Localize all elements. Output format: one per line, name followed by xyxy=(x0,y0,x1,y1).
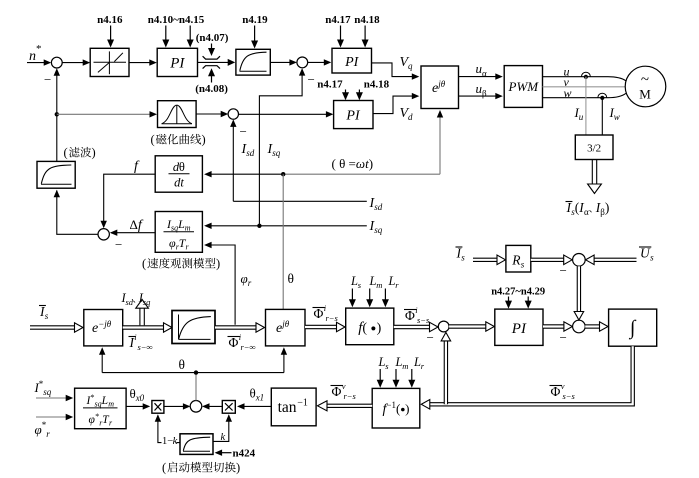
svg-text:*: * xyxy=(36,43,42,55)
svg-text:n: n xyxy=(29,49,36,64)
svg-text:): ) xyxy=(405,401,409,416)
svg-text:): ) xyxy=(236,461,240,475)
summing junction S7 xyxy=(573,253,586,266)
svg-text:−: − xyxy=(240,124,247,139)
svg-text:n4.19: n4.19 xyxy=(242,14,268,26)
svg-text:(: ( xyxy=(64,146,68,160)
svg-text:tan: tan xyxy=(278,399,297,416)
wire speed feedback vertical from filter B25 up to S1 xyxy=(56,70,58,161)
junction dot theta distribution xyxy=(194,370,198,374)
svg-text:−: − xyxy=(308,72,315,87)
wire I_sq feedback into S2 (minus) xyxy=(259,70,302,226)
wire n* to summing junction S1 xyxy=(27,62,50,64)
wire B5 output Vd to rotator B6 xyxy=(373,96,418,114)
wire n4.07 arrow down to clamp xyxy=(211,44,213,53)
svg-text:−1: −1 xyxy=(386,400,396,410)
wire B3 to summing junction S2 xyxy=(270,61,295,63)
wire f from dtheta/dt block B22 into S4 xyxy=(104,174,156,227)
svg-text:(: ( xyxy=(151,133,155,147)
svg-text:): ) xyxy=(377,321,382,336)
wire Isq* into B18 xyxy=(36,397,72,399)
svg-text:−: − xyxy=(560,263,567,278)
wire S1 to limiter block B1 xyxy=(62,62,88,64)
hollow wire B12 to S5 xyxy=(394,325,431,329)
svg-text:s: s xyxy=(461,253,465,263)
wire I_w down to 3/2 block xyxy=(601,98,603,135)
svg-text:L: L xyxy=(101,395,108,407)
svg-text:q: q xyxy=(408,61,413,71)
filter block B25 with exp curve xyxy=(37,161,75,188)
svg-text:sq: sq xyxy=(374,225,383,235)
svg-text:dt: dt xyxy=(174,176,184,190)
svg-text:w: w xyxy=(614,112,620,122)
hollow arrow 3/2 output Is xyxy=(591,160,593,185)
svg-text:u: u xyxy=(579,112,584,122)
wire B24 to summing junction S3 xyxy=(196,113,226,115)
limiter block B1 (saturation with rate symbol) xyxy=(90,48,129,76)
svg-text:Φ: Φ xyxy=(405,308,415,323)
junction dot speed feedback xyxy=(55,112,59,116)
svg-text:w: w xyxy=(564,86,572,100)
svg-text:): ) xyxy=(369,156,373,171)
wire n4.08 arrow up to clamp xyxy=(211,72,213,83)
startup model block B18 Isq*Lm/phir*Tr xyxy=(75,388,127,429)
rotator block B9 e^-jtheta xyxy=(84,310,123,346)
wire theta vertical through e^jtheta block xyxy=(282,174,284,309)
wire k from B21 to M2 bottom xyxy=(213,416,229,442)
svg-text:R: R xyxy=(511,253,521,268)
junction dot theta line xyxy=(281,172,285,176)
svg-text:φ: φ xyxy=(35,422,42,437)
hollow wire Us into S7 from right xyxy=(593,258,637,262)
svg-text:−: − xyxy=(115,237,122,252)
motor M circle xyxy=(625,66,666,107)
hollow wire B13 to S6 xyxy=(543,324,565,328)
hollow wire Rs to S7 xyxy=(531,258,566,262)
wire branch to magnetization block B24 xyxy=(57,113,156,115)
wire phi_r* into B18 xyxy=(36,416,72,418)
svg-text:1−: 1− xyxy=(162,436,173,447)
svg-text:): ) xyxy=(605,200,610,215)
svg-text:sq: sq xyxy=(43,387,52,397)
wire theta_x0 from B18 to M1 xyxy=(126,405,148,407)
switch curve block B21 xyxy=(180,434,213,455)
svg-text:n4.10~n4.15: n4.10~n4.15 xyxy=(148,14,205,26)
hollow wire Is into B9 xyxy=(30,325,76,329)
summing junction S4 xyxy=(98,229,109,240)
wire theta into B6 bottom xyxy=(439,112,441,175)
svg-text:Φ: Φ xyxy=(551,384,561,399)
svg-text:(: ( xyxy=(362,321,367,336)
svg-text:Δ: Δ xyxy=(130,217,138,232)
wires Ls Lm Lr arrows into B12 xyxy=(351,289,353,305)
hollow wire S7 down to S6 xyxy=(577,266,581,313)
tap junction on phase w xyxy=(598,93,607,98)
f(.) flux transform block B12 xyxy=(346,308,394,345)
svg-text:jθ: jθ xyxy=(437,79,446,89)
svg-text:s−∞: s−∞ xyxy=(138,342,153,352)
3/2 transform block B8 xyxy=(575,135,613,160)
svg-text:d: d xyxy=(408,112,413,122)
multiplier M1 box with X xyxy=(152,401,164,414)
summing junction S6 xyxy=(573,320,586,333)
f^-1(.) block B16 xyxy=(372,388,420,428)
hollow branch up I_sd I_sq outputs xyxy=(139,309,141,326)
summing junction S3 xyxy=(228,109,238,119)
svg-text:sq: sq xyxy=(272,148,281,158)
svg-text:n424: n424 xyxy=(233,448,256,460)
svg-text:PI: PI xyxy=(344,55,360,70)
hollow wire B9 to B10 xyxy=(123,325,165,329)
svg-text:sd: sd xyxy=(246,148,255,158)
svg-text:n4.17: n4.17 xyxy=(325,14,351,26)
svg-text:−1: −1 xyxy=(297,398,308,409)
wire phase u to motor xyxy=(543,77,627,81)
flux curve block B10 xyxy=(172,311,215,344)
svg-text:M: M xyxy=(639,87,651,102)
svg-text:PI: PI xyxy=(345,109,361,124)
hollow wire Is to Rs block xyxy=(473,258,499,262)
svg-text:n4.17: n4.17 xyxy=(317,79,343,91)
hollow wire S6 to integrator B14 xyxy=(585,324,600,328)
wire S4 output left then up into B25 xyxy=(57,191,98,235)
svg-text:n4.16: n4.16 xyxy=(97,14,123,26)
wire theta distribution line xyxy=(102,372,284,374)
svg-text:r−s: r−s xyxy=(326,313,339,323)
PI flux controller B13 xyxy=(495,309,543,345)
svg-text:n4.18: n4.18 xyxy=(364,79,390,91)
svg-text:−: − xyxy=(560,330,567,345)
svg-text:sq: sq xyxy=(143,297,151,307)
Rs block B15 xyxy=(506,245,531,272)
svg-text:s: s xyxy=(521,260,525,270)
wire n4.10-15 arrows into B2 xyxy=(165,26,167,45)
summing junction S2 xyxy=(297,57,308,68)
svg-text:s−s: s−s xyxy=(563,391,576,401)
wire S3 to PI d-axis B5 xyxy=(239,113,332,115)
svg-text:r−s: r−s xyxy=(344,391,357,401)
wire theta=wt gray segment to B6 xyxy=(283,173,440,175)
svg-text:sq: sq xyxy=(171,224,178,233)
PI speed controller B2 xyxy=(157,48,197,76)
svg-text:k: k xyxy=(173,436,178,447)
wire B6 u_beta to PWM xyxy=(459,95,502,97)
svg-text:(n4.07): (n4.07) xyxy=(196,32,229,44)
svg-text:−: − xyxy=(44,72,51,87)
svg-text:sq: sq xyxy=(95,400,102,409)
svg-text:(: ( xyxy=(162,461,166,475)
wire B1 to PI speed block B2 xyxy=(129,62,155,64)
rotator block B11 e^jtheta xyxy=(266,309,306,346)
svg-text:(n4.08): (n4.08) xyxy=(195,83,228,95)
PWM inverter block B7 xyxy=(504,66,542,108)
svg-text:r: r xyxy=(46,429,50,439)
wire I_sq into B23 right edge xyxy=(206,225,367,227)
svg-text:β: β xyxy=(482,89,487,99)
wires n4.17/n4.18 arrows into B5 xyxy=(345,90,347,98)
svg-text:): ) xyxy=(216,257,220,271)
svg-text:●: ● xyxy=(371,324,377,334)
svg-text:PWM: PWM xyxy=(508,79,540,94)
wire n4.16 arrow into B1 xyxy=(110,26,112,45)
hollow wire integrator output feedback xyxy=(429,346,633,404)
svg-text:jθ: jθ xyxy=(281,319,290,329)
svg-text:PI: PI xyxy=(511,321,527,337)
hollow wire S5 to PI B13 xyxy=(449,324,487,328)
svg-text:PI: PI xyxy=(169,56,185,72)
svg-text:α: α xyxy=(482,69,487,79)
svg-text:θ: θ xyxy=(179,160,185,174)
wires n4.27-29 arrows into B13 xyxy=(508,297,510,306)
first-order filter block B3 with exp curve xyxy=(236,49,270,75)
summing junction S8 theta mixer xyxy=(190,401,202,413)
wire theta up into B11 bottom xyxy=(283,349,285,373)
tan^-1 block B17 xyxy=(271,388,316,426)
svg-text:r−∞: r−∞ xyxy=(241,342,256,352)
wire Delta f from B23 into S4 xyxy=(111,232,155,234)
wire phi_r branch from flux line up into B23 xyxy=(206,245,235,325)
wire M2 to summing junction S8 xyxy=(204,405,223,407)
label 1-k xyxy=(162,436,177,444)
svg-text:n4.18: n4.18 xyxy=(354,14,380,26)
svg-text:φ: φ xyxy=(241,271,248,286)
multiplier M2 box with X xyxy=(222,401,235,414)
hollow wire B16 output to tan-1 xyxy=(327,404,372,408)
svg-text:θ: θ xyxy=(288,271,294,286)
wire I_u down to 3/2 block xyxy=(585,77,587,135)
junction dot I_sq line xyxy=(257,224,261,228)
wire B6 u_alpha to PWM xyxy=(459,76,502,78)
svg-text:m: m xyxy=(402,361,408,371)
wire theta=wt line into B22 right edge xyxy=(206,173,283,175)
wire S2 to PI q-axis block B4 xyxy=(308,61,330,63)
wire n424 arrow into B21 xyxy=(216,452,232,454)
svg-text:3/2: 3/2 xyxy=(587,143,601,155)
wires n4.17/n4.18 arrows into B4 xyxy=(340,26,342,45)
summing junction S5 xyxy=(438,321,449,332)
svg-text:−: − xyxy=(427,330,434,345)
hollow wire B11 to f() block B12 xyxy=(305,325,338,329)
wire M1 to S8 xyxy=(164,405,189,407)
wire I_sd feedback up into S3 xyxy=(232,121,234,201)
svg-text:Φ: Φ xyxy=(229,335,239,350)
integrator block B14 xyxy=(609,309,657,346)
svg-text:( θ =: ( θ = xyxy=(332,156,356,171)
svg-text:Φ: Φ xyxy=(332,384,342,399)
svg-text:sd: sd xyxy=(374,202,383,212)
svg-text:s: s xyxy=(650,253,654,263)
wire B4 output Vq to rotator B6 xyxy=(372,63,418,77)
wire tan-1 output theta_x1 to multiplier M2 xyxy=(239,405,271,407)
svg-text:m: m xyxy=(376,280,382,290)
svg-text:x1: x1 xyxy=(255,393,265,403)
wire phase v to motor xyxy=(543,86,626,88)
svg-text:): ) xyxy=(202,133,206,147)
rotator block B6 e^jtheta xyxy=(421,66,459,109)
wire n4.19 arrow into B3 xyxy=(254,26,256,46)
svg-text:r: r xyxy=(248,278,252,288)
svg-text:θ: θ xyxy=(179,357,185,372)
svg-text:s−s: s−s xyxy=(417,315,430,325)
svg-text:(: ( xyxy=(142,257,146,271)
PI q-axis current controller B4 xyxy=(332,48,372,73)
svg-text:Φ: Φ xyxy=(314,306,324,321)
hollow branch up into S5 xyxy=(444,339,448,404)
wire B2 through limit symbol to filter B3 xyxy=(198,61,229,63)
svg-text:m: m xyxy=(185,224,191,233)
wire phase w to motor xyxy=(543,93,627,97)
svg-text:): ) xyxy=(92,146,96,160)
wire theta up into B9 bottom xyxy=(101,349,103,373)
speed observer block B23 Isq Lm / phir Tr xyxy=(155,212,202,253)
wire I_sd stub line xyxy=(233,200,366,202)
svg-text:−jθ: −jθ xyxy=(98,319,112,329)
svg-text:n4.27~n4.29: n4.27~n4.29 xyxy=(491,287,545,298)
open arrow into f^-1 block right edge xyxy=(421,400,430,410)
wires Ls Lm Lr arrows into B16 xyxy=(379,369,381,385)
d theta / dt block B22 xyxy=(155,156,202,192)
tap junction on phase u xyxy=(581,72,590,77)
svg-text:ω: ω xyxy=(356,156,365,171)
hollow wire B10 to B11 xyxy=(215,325,257,329)
summing junction S1 xyxy=(51,57,62,68)
limit clamp symbol L1 xyxy=(203,56,220,59)
svg-text:s: s xyxy=(45,311,49,321)
magnetization curve block B24 xyxy=(158,101,197,128)
svg-text:x0: x0 xyxy=(135,393,145,403)
PI d-axis current controller B5 xyxy=(334,101,373,129)
svg-text:m: m xyxy=(108,400,114,409)
wire S8 output theta up to distribution line xyxy=(195,373,197,401)
wire 1-k from B21 to M1 bottom xyxy=(158,416,180,443)
